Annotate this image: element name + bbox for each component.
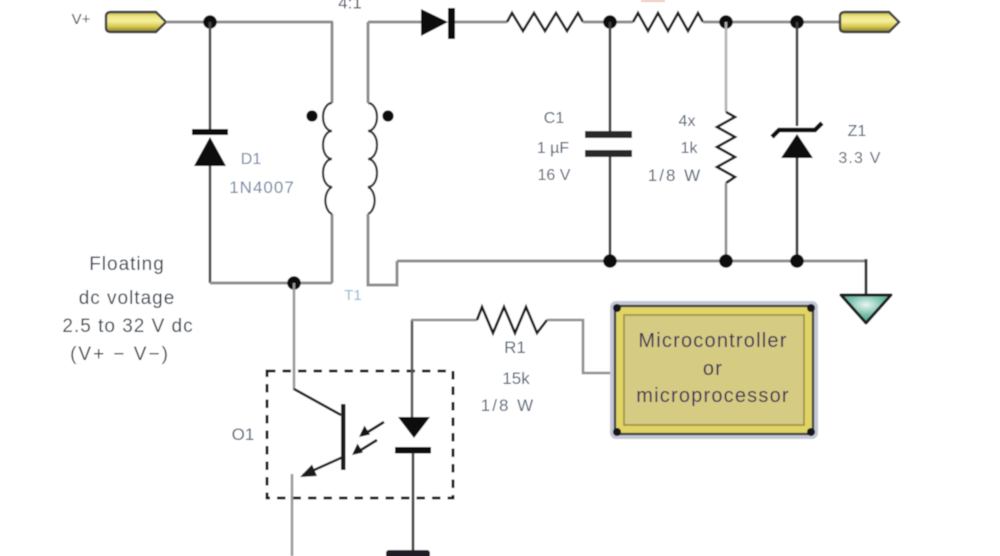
input terminal V+ bbox=[106, 12, 166, 32]
microcontroller halo bbox=[612, 303, 816, 437]
wire transformer primary bottom lead bbox=[331, 214, 334, 283]
label (V+ - V-) bbox=[70, 344, 170, 365]
transformer T1 primary winding bbox=[323, 103, 332, 214]
output terminal bbox=[840, 12, 899, 32]
wire bottom-left rail bbox=[210, 282, 332, 285]
label D1 bbox=[241, 151, 262, 168]
wire opto emitter vertical bbox=[291, 474, 294, 556]
node C1 bottom bbox=[603, 254, 617, 268]
label 1 uF bbox=[537, 140, 570, 157]
label Floating bbox=[89, 254, 165, 275]
transformer T1 secondary winding bbox=[368, 103, 377, 214]
wire LED bottom lead bbox=[412, 453, 415, 551]
wire divider lower lead bbox=[725, 183, 728, 261]
svg-text:dc voltage: dc voltage bbox=[79, 288, 176, 309]
label 1N4007 bbox=[229, 178, 295, 197]
svg-text:C1: C1 bbox=[544, 110, 565, 127]
resistor divider vertical bbox=[717, 112, 735, 183]
ground symbol bbox=[841, 295, 891, 323]
diode D1 bbox=[192, 129, 228, 166]
svg-text:15k: 15k bbox=[502, 369, 530, 388]
svg-text:V+: V+ bbox=[72, 11, 91, 28]
svg-text:O1: O1 bbox=[232, 425, 255, 444]
light arrows bbox=[352, 422, 384, 455]
wire zener upper lead bbox=[796, 22, 799, 126]
svg-text:16 V: 16 V bbox=[538, 167, 571, 184]
svg-text:1k: 1k bbox=[681, 140, 699, 157]
svg-text:1/8 W: 1/8 W bbox=[481, 396, 535, 415]
node zener top bbox=[790, 15, 804, 29]
opto LED bbox=[395, 417, 431, 454]
label 1/8 W divider bbox=[648, 166, 702, 185]
svg-text:1 µF: 1 µF bbox=[537, 140, 570, 157]
svg-text:Microcontroller: Microcontroller bbox=[638, 330, 787, 352]
label microprocessor bbox=[636, 385, 790, 407]
capacitor C1 bbox=[585, 131, 632, 157]
node zener bottom bbox=[790, 254, 804, 268]
wire LED top lead bbox=[411, 320, 414, 417]
resistor top 1 bbox=[507, 13, 583, 31]
svg-text:R1: R1 bbox=[504, 338, 526, 357]
label dc voltage bbox=[79, 288, 176, 309]
label Z1 bbox=[848, 123, 867, 140]
svg-text:Floating: Floating bbox=[89, 254, 165, 275]
node C1 top bbox=[603, 15, 617, 29]
label T1 bbox=[344, 287, 362, 304]
wire zener lower lead bbox=[796, 158, 799, 261]
node opto branch bbox=[287, 276, 301, 290]
label R1 bbox=[504, 338, 526, 357]
node input junction bbox=[203, 15, 217, 29]
label V+ bbox=[72, 11, 91, 28]
diode D2 bbox=[421, 8, 455, 39]
label 3.3 V bbox=[838, 150, 881, 167]
svg-text:Z1: Z1 bbox=[848, 123, 867, 140]
label 4x bbox=[679, 113, 696, 130]
wire transformer primary top lead bbox=[331, 22, 334, 103]
svg-text:2.5 to 32 V dc: 2.5 to 32 V dc bbox=[62, 316, 193, 337]
zener diode Z1 bbox=[772, 123, 822, 158]
wire C1 lower lead bbox=[609, 157, 612, 261]
wire bottom rail bbox=[397, 260, 866, 263]
label 15k bbox=[502, 369, 530, 388]
label Microcontroller bbox=[638, 330, 787, 352]
opto phototransistor bbox=[294, 389, 346, 477]
svg-text:4:1: 4:1 bbox=[338, 0, 362, 13]
wire secondary bottom jog bbox=[368, 214, 397, 285]
wire divider upper lead bbox=[725, 22, 728, 112]
label 1k bbox=[681, 140, 699, 157]
label 16 V bbox=[538, 167, 571, 184]
svg-text:T1: T1 bbox=[344, 287, 362, 304]
wire R1 right lead bbox=[547, 320, 615, 373]
label 1/8 W R1 bbox=[481, 396, 535, 415]
wire D1 branch lower bbox=[209, 166, 212, 283]
svg-text:1/8 W: 1/8 W bbox=[648, 166, 702, 185]
label 4:1 bbox=[338, 0, 362, 13]
wire ground lead bbox=[865, 259, 868, 294]
wire right top rail bbox=[703, 21, 840, 24]
wire top rail left bbox=[166, 21, 333, 24]
svg-text:3.3 V: 3.3 V bbox=[838, 150, 881, 167]
wire D2 to R bbox=[455, 21, 507, 24]
wire R1 left lead bbox=[411, 319, 477, 322]
stray top label fragment bbox=[641, 0, 665, 2]
wire opto collector vertical bbox=[293, 283, 296, 390]
wire C1 upper lead bbox=[609, 22, 612, 131]
microcontroller U1 box bbox=[615, 306, 813, 434]
wire secondary top lead bbox=[368, 22, 421, 103]
wire mid top rail bbox=[583, 21, 633, 24]
node bottom edge bbox=[386, 550, 430, 556]
node divider bottom bbox=[719, 254, 733, 268]
svg-text:(V+ − V−): (V+ − V−) bbox=[70, 344, 170, 365]
svg-text:or: or bbox=[703, 358, 723, 380]
svg-text:1N4007: 1N4007 bbox=[229, 178, 295, 197]
microcontroller corner marks bbox=[613, 304, 815, 436]
label C1 bbox=[544, 110, 565, 127]
svg-text:D1: D1 bbox=[241, 151, 262, 168]
svg-text:microprocessor: microprocessor bbox=[636, 385, 790, 407]
label O1 bbox=[232, 425, 255, 444]
optocoupler O1 dashed box bbox=[267, 371, 453, 498]
phase dot primary bbox=[306, 110, 317, 121]
node divider top bbox=[719, 15, 733, 29]
label or bbox=[703, 358, 723, 380]
wire D1 branch upper bbox=[209, 22, 212, 130]
svg-text:4x: 4x bbox=[679, 113, 696, 130]
label 2.5 to 32 V dc bbox=[62, 316, 193, 337]
phase dot secondary bbox=[382, 110, 393, 121]
resistor R1 bbox=[477, 307, 547, 333]
resistor top 2 bbox=[633, 13, 703, 31]
